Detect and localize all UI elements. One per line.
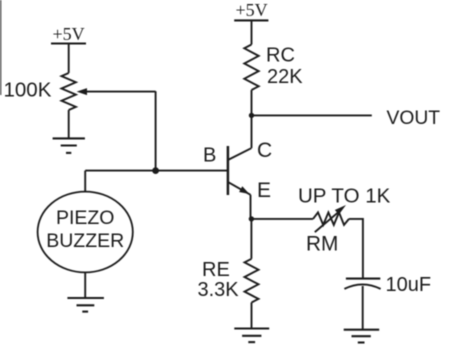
node collector/VOUT junction xyxy=(249,113,254,118)
wire RE to ground xyxy=(251,303,253,329)
svg-text:100K: 100K xyxy=(4,79,52,102)
svg-text:RC: RC xyxy=(266,45,295,67)
capacitor C1 10uF xyxy=(344,279,380,289)
svg-text:PIEZO: PIEZO xyxy=(56,207,115,229)
wire emitter node down to RE xyxy=(250,219,252,259)
base wire (buzzer/pot node to transistor base) xyxy=(85,170,227,172)
svg-text:VOUT: VOUT xyxy=(387,108,441,129)
wire emitter node to RM xyxy=(251,218,313,220)
wire +5V bar to potentiometer top xyxy=(68,44,70,74)
wire potentiometer bottom to ground xyxy=(68,110,70,138)
svg-text:B: B xyxy=(203,145,216,167)
potentiometer R1 100K (zigzag body) xyxy=(62,73,76,110)
svg-text:BUZZER: BUZZER xyxy=(46,230,124,252)
wire wiper corner down to base node xyxy=(155,91,157,170)
node emitter junction xyxy=(249,216,254,221)
svg-text:UP TO 1K: UP TO 1K xyxy=(298,184,391,207)
+5V supply rail (left) xyxy=(51,24,86,44)
wire RC bottom to collector node xyxy=(251,90,253,148)
svg-text:C: C xyxy=(257,139,272,162)
wire emitter to node xyxy=(250,195,252,219)
node base junction xyxy=(152,167,159,174)
resistor RC 22K (zigzag body) xyxy=(244,45,258,91)
svg-text:22K: 22K xyxy=(267,66,303,88)
wire buzzer bottom lead xyxy=(84,272,86,298)
ground (capacitor) xyxy=(344,330,380,343)
resistor RM variable (zigzag body) xyxy=(313,212,349,225)
ground (buzzer) xyxy=(67,298,104,312)
svg-text:+5V: +5V xyxy=(53,24,85,44)
wire RM to capacitor corner xyxy=(349,219,363,278)
svg-text:RE: RE xyxy=(202,259,230,281)
svg-text:10uF: 10uF xyxy=(386,274,432,296)
potentiometer wiper arrow xyxy=(77,88,156,95)
ground (RE) xyxy=(234,329,269,343)
svg-text:3.3K: 3.3K xyxy=(198,279,240,301)
wire +5V bar to RC top xyxy=(251,20,253,44)
resistor RE 3.3K (zigzag body) xyxy=(245,259,259,303)
RM wiper diagonal arrow xyxy=(315,205,346,232)
wire VOUT xyxy=(252,114,372,116)
wire capacitor to ground xyxy=(362,286,364,330)
ground (potentiometer) xyxy=(53,138,85,153)
svg-text:+5V: +5V xyxy=(236,0,268,20)
piezo buzzer BZ1 xyxy=(38,192,133,273)
+5V supply rail (collector) xyxy=(234,0,268,20)
transistor Q1 (NPN) xyxy=(228,146,251,195)
svg-text:RM: RM xyxy=(306,233,338,256)
wire buzzer top lead xyxy=(84,171,86,192)
svg-text:E: E xyxy=(257,179,271,202)
